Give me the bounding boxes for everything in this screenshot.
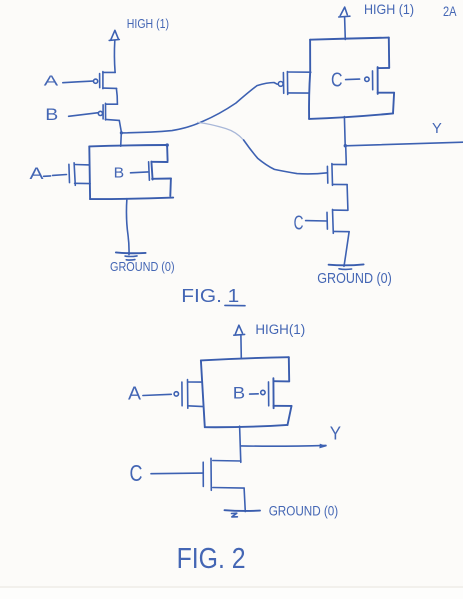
svg-text:B: B — [45, 105, 58, 124]
wire: Q11 source to ground — [244, 488, 245, 512]
NMOS transistor Q3 gate A (left of box) — [44, 163, 91, 186]
power arrow (VDD, Fig.1 left) — [109, 30, 119, 72]
wire: box bottom to ground — [126, 199, 129, 255]
svg-text:FIG. 1: FIG. 1 — [181, 285, 239, 306]
wire: Q1 source to Q2 drain — [116, 89, 117, 105]
wire: box bottom to Y junction — [343, 117, 346, 146]
svg-text:2A: 2A — [443, 3, 457, 19]
NMOS transistor Q11 gate C (Fig.2 pull-down) — [151, 458, 244, 490]
svg-text:GROUND (0): GROUND (0) — [110, 259, 175, 274]
wire: Fig.2 output Y line — [241, 444, 326, 447]
ground symbol (Fig.1 left) — [116, 252, 146, 260]
wire: Y junction down to NMOS drain — [345, 146, 348, 165]
arrowhead on Y line — [319, 444, 326, 449]
PMOS transistor Q10 gate B (Fig.2, box notch) — [250, 382, 269, 406]
NMOS transistor Q7 (gate from left output, Fig.1 pull-down series) — [327, 164, 347, 186]
underline under numeral 1 — [225, 304, 245, 306]
svg-text:Y: Y — [330, 423, 341, 443]
svg-text:HIGH (1): HIGH (1) — [364, 1, 414, 17]
NMOS pair box (Fig.1 pull-down, parallel A,B) — [89, 145, 173, 199]
wire: Q8 source to ground — [344, 232, 349, 267]
PMOS pair box (Fig.1 pull-up, parallel) — [309, 38, 394, 119]
wire: output Y line to right edge — [345, 142, 463, 146]
node: Y output junction — [344, 144, 347, 147]
PMOS transistor Q5 (gate from left output, left of box) — [278, 72, 310, 95]
svg-text:C: C — [130, 460, 143, 486]
wire: Q7 source to Q8 drain — [346, 185, 349, 210]
ground symbol (Fig.2) — [225, 510, 261, 517]
wire: node down to NMOS box top — [120, 133, 123, 146]
NMOS transistor Q4 gate B (inside box right) — [131, 162, 150, 180]
wire: crossover curve to right NMOS gate (faint crossing) — [198, 122, 244, 140]
PMOS transistor Q6 gate C (in box right notch) — [346, 71, 373, 90]
svg-text:C: C — [331, 68, 343, 91]
ground symbol (Fig.1 right) — [329, 264, 364, 269]
PMOS transistor Q1 gate A (Fig.1 pull-up series) — [63, 72, 117, 89]
svg-text:B: B — [233, 384, 245, 403]
power arrow (VDD, Fig.2) — [234, 325, 245, 358]
paper scan edge line at bottom — [0, 586, 463, 588]
svg-text:Y: Y — [432, 121, 442, 137]
PMOS pair box (Fig.2 pull-up, parallel A,B) — [201, 357, 292, 427]
svg-text:B: B — [114, 165, 125, 181]
svg-text:C: C — [294, 212, 304, 235]
svg-text:GROUND (0): GROUND (0) — [269, 503, 339, 519]
power arrow (VDD, Fig.1 right) — [339, 7, 350, 39]
svg-text:HIGH(1): HIGH(1) — [255, 322, 305, 337]
svg-text:FIG. 2: FIG. 2 — [177, 543, 246, 575]
svg-text:A: A — [30, 164, 45, 183]
NMOS transistor Q8 gate C (Fig.1 pull-down series) — [306, 209, 350, 233]
PMOS transistor Q9 gate A (Fig.2) — [143, 380, 204, 409]
wire: Fig.2 box bottom to output node — [240, 426, 241, 462]
wire: Q2 source to left output node — [119, 121, 121, 133]
wire: crossover curve to right PMOS gate — [122, 83, 278, 133]
PMOS transistor Q2 gate B (Fig.1 pull-up series) — [69, 103, 120, 120]
node: left gate-output junction — [120, 131, 123, 134]
node: box top-right corner blob — [166, 143, 169, 146]
svg-text:A: A — [128, 384, 141, 404]
svg-text:GROUND (0): GROUND (0) — [317, 271, 392, 287]
svg-text:A: A — [44, 74, 59, 90]
svg-text:HIGH (1): HIGH (1) — [127, 16, 169, 31]
